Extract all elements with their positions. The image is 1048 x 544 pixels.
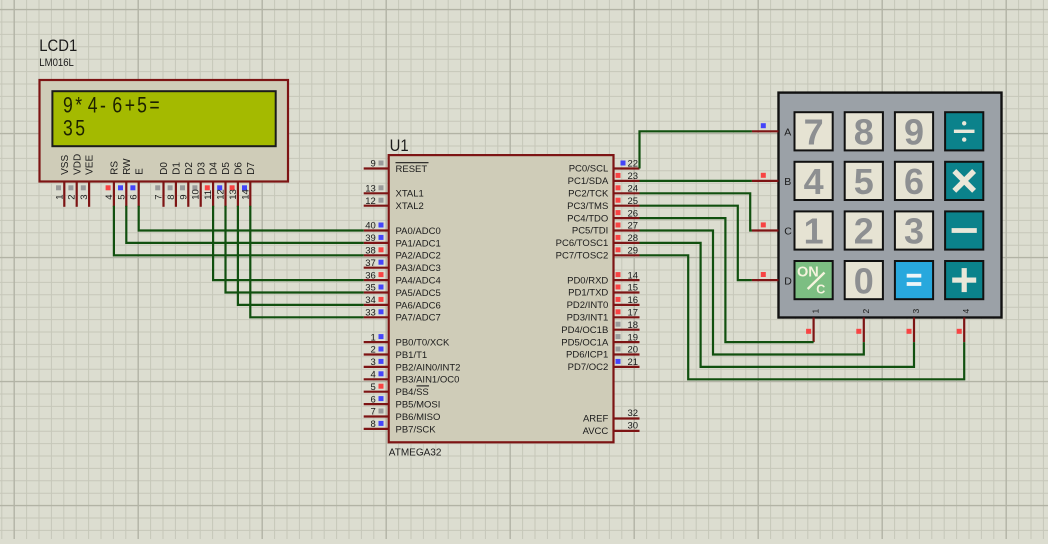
svg-text:PD1/TXD: PD1/TXD [568, 288, 608, 299]
svg-text:3: 3 [911, 309, 921, 314]
keypad column pin 1 [806, 309, 821, 343]
svg-text:9: 9 [371, 159, 376, 170]
svg-text:23: 23 [628, 171, 639, 182]
wire PC6 to keypad column 3 [640, 243, 915, 367]
svg-text:PD6/ICP1: PD6/ICP1 [566, 350, 608, 361]
U1 pin 33 (PA7/ADC7) [364, 308, 441, 324]
svg-text:13: 13 [365, 184, 376, 195]
keypad button 2 [845, 211, 883, 252]
svg-text:33: 33 [365, 308, 376, 319]
svg-text:C: C [816, 283, 825, 297]
keypad column pin 4 [957, 309, 972, 343]
LCD display text line 2: 35 [63, 117, 85, 141]
wire PC0 to keypad row A [640, 131, 752, 168]
keypad column pin 2 [856, 309, 871, 343]
LCD1 screen [52, 91, 275, 146]
svg-text:PD2/INT0: PD2/INT0 [567, 300, 609, 311]
wire LCD E to PA0 [139, 206, 364, 231]
svg-text:21: 21 [628, 357, 639, 368]
keypad column pin 3 [907, 309, 922, 343]
svg-text:PD0/RXD: PD0/RXD [567, 275, 608, 286]
svg-text:D0: D0 [159, 162, 170, 175]
svg-text:4: 4 [804, 161, 824, 202]
svg-text:ON: ON [797, 265, 819, 281]
U1 pin 21 (PD7/OC2) [568, 357, 640, 373]
svg-text:9: 9 [178, 195, 189, 200]
svg-text:PC5/TDI: PC5/TDI [572, 226, 608, 237]
svg-text:8: 8 [854, 112, 874, 153]
U1 pin 38 (PA2/ADC2) [364, 246, 441, 262]
svg-text:PD4/OC1B: PD4/OC1B [561, 325, 608, 336]
svg-text:A: A [784, 127, 791, 139]
svg-text:=: = [149, 94, 159, 118]
svg-text:3: 3 [904, 211, 924, 252]
svg-text:2: 2 [371, 345, 376, 356]
svg-text:1: 1 [804, 211, 824, 252]
U1 pin 23 (PC1/SDA) [568, 171, 640, 187]
keypad button multiply [945, 162, 983, 200]
svg-text:PA7/ADC7: PA7/ADC7 [396, 313, 441, 324]
LCD1 pin 4 (RS) [104, 161, 121, 207]
svg-text:40: 40 [365, 221, 376, 232]
wire PC2 to keypad row C [640, 193, 752, 230]
svg-text:8: 8 [371, 419, 376, 430]
svg-text:5: 5 [854, 161, 874, 202]
U1 pin 32 (AREF) [583, 408, 640, 425]
svg-text:13: 13 [228, 189, 239, 200]
wire PC5 to keypad column 2 [640, 231, 864, 355]
U1 pin 15 (PD1/TXD) [568, 283, 639, 299]
U1 pin 7 (PB6/MISO) [364, 407, 441, 423]
LCD1 pin 2 (VDD) [67, 154, 84, 207]
svg-text:14: 14 [240, 189, 251, 200]
svg-text:6: 6 [371, 394, 376, 405]
LCD1 pin 6 (E) [129, 168, 146, 207]
svg-text:2: 2 [854, 211, 874, 252]
svg-text:LM016L: LM016L [39, 57, 74, 69]
LCD1 pin 11 (D4) [203, 162, 220, 207]
wire LCD D4 to PA4 [213, 206, 364, 280]
svg-text:16: 16 [628, 295, 639, 306]
LCD1 pin 8 (D1) [166, 162, 183, 207]
svg-text:D6: D6 [234, 162, 245, 175]
U1 pin 3 (PB2/AIN0/INT2) [364, 357, 461, 373]
keypad button 4 [795, 161, 833, 202]
LCD1 LM016L body [40, 80, 289, 182]
U1 pin 24 (PC2/TCK) [568, 184, 639, 200]
wire LCD RW to PA1 [126, 206, 363, 243]
U1 ATMEGA32 body [389, 155, 614, 442]
wire PC1 to keypad row B [640, 180, 752, 182]
LCD1 pin 13 (D6) [228, 162, 245, 207]
svg-text:PB1/T1: PB1/T1 [396, 350, 428, 361]
svg-text:39: 39 [365, 233, 376, 244]
svg-text:D7: D7 [246, 162, 257, 175]
keypad button 6 [895, 161, 933, 202]
LCD1 pin 9 (D2) [178, 162, 195, 207]
svg-text:PC7/TOSC2: PC7/TOSC2 [556, 251, 609, 262]
keypad button 0 [845, 260, 883, 301]
U1 pin 36 (PA4/ADC4) [364, 270, 441, 286]
svg-text:VSS: VSS [60, 155, 71, 175]
U1 pin 20 (PD6/ICP1) [566, 345, 639, 361]
svg-text:D4: D4 [209, 162, 220, 175]
svg-text:PC0/SCL: PC0/SCL [569, 164, 609, 175]
svg-text:PB6/MISO: PB6/MISO [396, 412, 441, 423]
svg-text:6: 6 [112, 94, 122, 118]
keypad button ON/C [795, 261, 833, 299]
svg-text:PD5/OC1A: PD5/OC1A [561, 337, 609, 348]
LCD1 pin 14 (D7) [240, 162, 257, 207]
U1 pin 12 (XTAL2) [364, 196, 424, 212]
LCD1 pin 7 (D0) [154, 162, 171, 207]
U1 pin 25 (PC3/TMS) [567, 196, 639, 212]
svg-text:XTAL1: XTAL1 [396, 189, 424, 200]
svg-text:4: 4 [104, 195, 115, 200]
svg-text:7: 7 [154, 195, 165, 200]
wire LCD RS to PA2 [114, 206, 364, 256]
svg-text:9: 9 [63, 94, 73, 118]
svg-text:6: 6 [129, 195, 140, 200]
keypad button 9 [895, 112, 933, 153]
wire PC3 to keypad row D [640, 206, 752, 280]
keypad row pin D [752, 272, 792, 287]
svg-text:32: 32 [628, 408, 639, 419]
svg-text:35: 35 [365, 283, 376, 294]
U1 pin 13 (XTAL1) [364, 184, 424, 200]
svg-text:PD7/OC2: PD7/OC2 [568, 362, 609, 373]
svg-text:VEE: VEE [85, 155, 96, 175]
svg-text:C: C [784, 226, 792, 238]
wire PC7 to keypad column 4 [640, 255, 965, 379]
U1 pin 9 (RESET) [364, 159, 429, 175]
svg-text:PC4/TDO: PC4/TDO [567, 213, 608, 224]
svg-text:30: 30 [628, 421, 639, 432]
svg-text:11: 11 [203, 190, 214, 200]
svg-text:1: 1 [54, 195, 65, 200]
keypad row pin B [752, 173, 791, 188]
U1 pin 14 (PD0/RXD) [567, 270, 639, 286]
LCD1 pin 12 (D5) [216, 162, 233, 207]
svg-text:2: 2 [67, 195, 78, 200]
svg-text:PA0/ADC0: PA0/ADC0 [396, 226, 441, 237]
svg-text:5: 5 [75, 117, 85, 141]
svg-text:5: 5 [371, 382, 376, 393]
U1 pin 35 (PA5/ADC5) [364, 283, 441, 299]
svg-text:-: - [100, 94, 106, 118]
svg-text:17: 17 [628, 308, 639, 319]
svg-text:LCD1: LCD1 [39, 37, 77, 55]
U1 pin 17 (PD3/INT1) [567, 308, 640, 324]
svg-text:PA3/ADC3: PA3/ADC3 [396, 263, 441, 274]
svg-text:PC1/SDA: PC1/SDA [568, 176, 609, 187]
svg-text:36: 36 [365, 270, 376, 281]
keypad button 1 [795, 211, 833, 252]
keypad button 5 [845, 161, 883, 202]
svg-text:AREF: AREF [583, 414, 609, 425]
svg-text:24: 24 [628, 184, 639, 195]
U1 pin 22 (PC0/SCL) [569, 159, 640, 175]
svg-text:PD3/INT1: PD3/INT1 [567, 313, 609, 324]
svg-text:37: 37 [365, 258, 376, 269]
svg-text:3: 3 [63, 117, 73, 141]
U1 pin 26 (PC4/TDO) [567, 208, 639, 224]
svg-text:2: 2 [861, 309, 871, 314]
svg-text:29: 29 [628, 246, 639, 257]
svg-text:4: 4 [88, 94, 98, 118]
keypad button divide [945, 112, 983, 150]
svg-text:PA2/ADC2: PA2/ADC2 [396, 251, 441, 262]
keypad button equals [895, 261, 933, 299]
svg-text:3: 3 [371, 357, 376, 368]
svg-text:XTAL2: XTAL2 [396, 201, 424, 212]
svg-text:4: 4 [371, 370, 376, 381]
svg-text:D2: D2 [184, 162, 195, 175]
svg-text:7: 7 [371, 407, 376, 418]
svg-text:D1: D1 [172, 162, 183, 175]
svg-text:D3: D3 [196, 162, 207, 175]
U1 pin 28 (PC6/TOSC1) [556, 233, 640, 249]
svg-text:PC6/TOSC1: PC6/TOSC1 [556, 238, 609, 249]
wire LCD D6 to PA6 [238, 206, 364, 305]
svg-text:5: 5 [116, 195, 127, 200]
U1 pin 27 (PC5/TDI) [572, 221, 640, 237]
svg-text:VDD: VDD [72, 154, 83, 175]
svg-text:PB3/AIN1/OC0: PB3/AIN1/OC0 [396, 375, 460, 386]
svg-text:27: 27 [628, 221, 639, 232]
svg-text:10: 10 [191, 189, 202, 200]
svg-text:D: D [784, 275, 792, 287]
wire LCD D5 to PA5 [226, 206, 364, 293]
U1 pin 30 (AVCC) [583, 421, 640, 438]
svg-text:PB2/AIN0/INT2: PB2/AIN0/INT2 [396, 362, 461, 373]
LCD display text line 1: 9*4-6+5= [63, 94, 160, 118]
svg-text:PC3/TMS: PC3/TMS [567, 201, 608, 212]
svg-text:PB5/MOSI: PB5/MOSI [396, 400, 441, 411]
svg-text:38: 38 [365, 246, 376, 257]
svg-text:28: 28 [628, 233, 639, 244]
svg-text:15: 15 [628, 283, 639, 294]
svg-text:20: 20 [628, 345, 639, 356]
svg-text:0: 0 [854, 260, 874, 301]
svg-text:RESET: RESET [396, 164, 428, 175]
svg-text:5: 5 [137, 94, 147, 118]
svg-text:PA1/ADC1: PA1/ADC1 [396, 238, 441, 249]
U1 pin 18 (PD4/OC1B) [561, 320, 639, 336]
svg-text:+: + [125, 94, 135, 118]
svg-text:AVCC: AVCC [583, 426, 609, 437]
svg-text:D5: D5 [221, 162, 232, 175]
svg-text:PC2/TCK: PC2/TCK [568, 189, 609, 200]
svg-text:7: 7 [804, 112, 824, 153]
svg-text:PA5/ADC5: PA5/ADC5 [396, 288, 441, 299]
svg-text:19: 19 [628, 332, 639, 343]
keypad button plus [945, 261, 983, 299]
keypad row pin A [752, 123, 791, 138]
keypad row pin C [752, 222, 792, 237]
LCD1 pin 5 (RW) [116, 158, 133, 207]
svg-text:PB7/SCK: PB7/SCK [396, 424, 437, 435]
LCD1 pin 1 (VSS) [54, 155, 71, 207]
keypad button minus [945, 211, 983, 249]
svg-text:PB0/T0/XCK: PB0/T0/XCK [396, 338, 451, 349]
U1 pin 8 (PB7/SCK) [364, 419, 437, 435]
svg-text:PB4/SS: PB4/SS [396, 387, 429, 398]
svg-text:PA6/ADC6: PA6/ADC6 [396, 300, 441, 311]
svg-text:3: 3 [79, 195, 90, 200]
svg-text:U1: U1 [390, 137, 409, 155]
svg-text:E: E [134, 168, 145, 175]
keypad button 8 [845, 112, 883, 153]
U1 pin 4 (PB3/AIN1/OC0) [364, 370, 460, 386]
svg-text:1: 1 [371, 332, 376, 343]
U1 pin 19 (PD5/OC1A) [561, 332, 639, 348]
U1 pin 1 (PB0/T0/XCK) [364, 332, 450, 348]
U1 pin 39 (PA1/ADC1) [364, 233, 441, 249]
svg-text:PA4/ADC4: PA4/ADC4 [396, 276, 441, 287]
svg-text:9: 9 [904, 112, 924, 153]
U1 pin 37 (PA3/ADC3) [364, 258, 441, 274]
U1 pin 5 (PB4/SS) [364, 382, 429, 398]
svg-text:RW: RW [122, 158, 133, 175]
svg-text:4: 4 [961, 309, 971, 314]
svg-text:34: 34 [365, 295, 376, 306]
svg-text:RS: RS [110, 161, 121, 175]
U1 pin 40 (PA0/ADC0) [364, 221, 441, 237]
keypad body [779, 93, 1002, 318]
svg-text:*: * [75, 94, 82, 118]
keypad button 7 [795, 112, 833, 153]
svg-text:14: 14 [628, 270, 639, 281]
svg-text:8: 8 [166, 195, 177, 200]
U1 pin 2 (PB1/T1) [364, 345, 427, 361]
svg-text:18: 18 [628, 320, 639, 331]
svg-text:12: 12 [365, 196, 376, 207]
U1 pin 34 (PA6/ADC6) [364, 295, 441, 311]
svg-text:26: 26 [628, 208, 639, 219]
wire LCD D7 to PA7 [250, 206, 363, 317]
LCD1 pin 3 (VEE) [79, 155, 96, 207]
svg-text:22: 22 [628, 159, 639, 170]
wire PC4 to keypad column 1 [640, 218, 814, 342]
svg-text:12: 12 [216, 189, 227, 200]
U1 pin 6 (PB5/MOSI) [364, 394, 441, 410]
U1 pin 29 (PC7/TOSC2) [556, 246, 640, 262]
svg-text:25: 25 [628, 196, 639, 207]
svg-text:B: B [784, 176, 791, 188]
svg-text:ATMEGA32: ATMEGA32 [389, 448, 442, 459]
keypad button 3 [895, 211, 933, 252]
svg-text:6: 6 [904, 161, 924, 202]
U1 pin 16 (PD2/INT0) [567, 295, 640, 311]
LCD1 pin 10 (D3) [191, 162, 208, 207]
svg-text:1: 1 [811, 309, 821, 314]
